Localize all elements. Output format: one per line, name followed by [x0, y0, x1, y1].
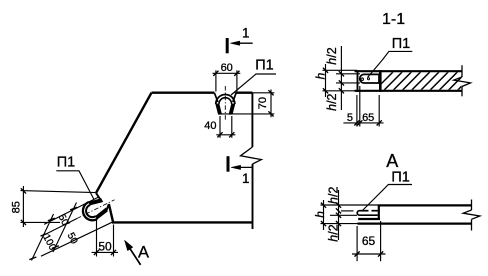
- loop P1 top: inner arch: [219, 98, 232, 104]
- view A: dimension 65 extension lines: [356, 226, 358, 261]
- svg-text:h/2: h/2: [325, 47, 339, 64]
- svg-text:А: А: [386, 151, 398, 171]
- section 1-1: panel bottom face: [355, 90, 463, 92]
- dimension 70: dimension line: [270, 90, 272, 118]
- section 1-1: panel left end face: [357, 70, 359, 92]
- view A: loop P1 bar rounded end: [357, 211, 359, 216]
- dimension 85: extension line top: [21, 191, 96, 193]
- svg-text:5: 5: [347, 112, 353, 124]
- svg-text:65: 65: [362, 112, 374, 124]
- section 1-1: extension bottom face left: [323, 90, 358, 92]
- section 1-1: loop P1 bar (side view): [360, 74, 380, 83]
- dimension 70: extension line top: [235, 92, 275, 94]
- dimension 85: extension line bottom (bottom edge extended): [21, 221, 61, 223]
- dimension 60: extension lines: [215, 70, 217, 91]
- loop P1 top: right leg: [229, 104, 235, 114]
- view A: extension bar top left stub: [341, 210, 354, 212]
- svg-text:1: 1: [242, 171, 250, 186]
- loop P1 top: outer arch: [216, 95, 235, 105]
- dimension 70: extension line bottom: [219, 113, 274, 115]
- section 1-1: dimension 5-65 extension lines: [356, 95, 358, 127]
- view A: top face thin (over chamfer): [321, 204, 380, 206]
- view A: chamfer lower edge: [358, 218, 380, 220]
- panel corner edge at loop P1: [109, 204, 113, 222]
- section 1-1: bar circle 2: [367, 78, 369, 80]
- view A: bottom face thick: [358, 223, 472, 225]
- loop P1 corner: chamfer upper: [96, 193, 100, 200]
- section 1-1: bar step line: [378, 82, 380, 84]
- panel right edge upper segment: [251, 93, 253, 147]
- section 1-1: panel top face: [355, 70, 463, 72]
- section 1-1: extension bar bottom left: [336, 82, 360, 84]
- view A: leader line of P1: [362, 185, 412, 211]
- view A: extension bar bottom left: [330, 214, 357, 216]
- section 1-1: hatching: [375, 72, 476, 90]
- svg-text:h: h: [314, 72, 328, 79]
- view A: top face thick: [380, 204, 472, 206]
- leader line of loop P1 corner: [56, 171, 94, 200]
- dimension 60: dimension line: [213, 72, 241, 74]
- dimension 50 bottom: dimension line: [92, 251, 119, 253]
- svg-text:40: 40: [204, 120, 216, 132]
- section 1-1: extension top face left: [323, 69, 358, 71]
- section mark 1 top: bar: [226, 38, 229, 53]
- panel right edge lower segment: [252, 164, 254, 229]
- dimension 40: dimension line: [216, 134, 235, 136]
- svg-text:1: 1: [242, 26, 250, 41]
- svg-text:65: 65: [362, 234, 376, 248]
- view A: dimension h line: [323, 200, 325, 230]
- loop P1 top: left leg: [216, 104, 222, 114]
- loop P1 corner: upper leg: [89, 199, 103, 205]
- svg-text:1-1: 1-1: [382, 11, 405, 28]
- section mark 1 bottom: arrow: [234, 166, 252, 168]
- loop P1 corner: outer arch: [83, 202, 97, 220]
- extension line L3 (through bottom corner): [41, 222, 113, 256]
- dimension 85: dimension line: [22, 186, 24, 227]
- dimension 50 bottom: extension lines: [96, 221, 98, 257]
- view A: dimension line 65: [352, 253, 386, 255]
- loop P1 top: centerline: [224, 86, 226, 121]
- loop P1 top: recess chamfer left: [214, 93, 218, 102]
- leader line of loop P1 top: [231, 74, 276, 95]
- view A: bottom face extension left: [321, 223, 358, 225]
- dimension 40: extension lines: [219, 116, 221, 138]
- section 1-1: recess right edge: [379, 70, 382, 92]
- view A: break symbol right end: [471, 200, 473, 211]
- svg-text:h/2: h/2: [326, 224, 340, 241]
- view A: loop P1 bar bottom: [360, 214, 378, 216]
- svg-text:П1: П1: [392, 36, 411, 52]
- loop P1 corner: lower leg: [96, 208, 108, 219]
- view A: recess edge thick vertical: [378, 204, 380, 219]
- section 1-1: dimension h line: [325, 64, 327, 97]
- section 1-1: leader line of P1: [368, 51, 413, 77]
- svg-text:h/2: h/2: [326, 187, 340, 204]
- section mark 1 top: arrow: [233, 42, 253, 44]
- section 1-1: bar circle 1: [361, 78, 364, 81]
- svg-text:А: А: [138, 244, 149, 262]
- view arrow A: [129, 247, 141, 265]
- loop P1 corner: centerline along axis: [77, 200, 115, 219]
- extension line L1 (upper leg line extended): [44, 197, 98, 224]
- svg-text:h: h: [313, 211, 327, 218]
- section 1-1: dimension chain line h/2: [340, 46, 342, 110]
- svg-text:П1: П1: [391, 170, 410, 186]
- svg-text:70: 70: [257, 97, 269, 109]
- section mark 1 bottom: bar: [227, 156, 230, 172]
- section 1-1: dimension line 5/65: [343, 122, 383, 124]
- section 1-1: extension bar top left: [336, 73, 360, 75]
- dimension line 100 (D1): [32, 214, 54, 261]
- panel top edge: [152, 91, 215, 93]
- svg-text:60: 60: [221, 62, 233, 74]
- panel diagonal edge: [96, 93, 152, 193]
- svg-text:h/2: h/2: [325, 93, 339, 110]
- extension line L2 (loop centerline extended): [44, 219, 77, 236]
- dimension line 50/50 (D0): [53, 203, 77, 253]
- svg-text:П1: П1: [57, 154, 76, 170]
- view A: loop P1 bar top: [360, 210, 369, 212]
- svg-text:50: 50: [98, 240, 112, 254]
- section 1-1: break symbol right end: [461, 65, 463, 77]
- panel bottom edge: [112, 221, 252, 223]
- break symbol on right edge: [241, 147, 262, 164]
- svg-text:П1: П1: [255, 57, 274, 73]
- loop P1 corner: inner arch: [86, 205, 96, 217]
- loop P1 top: recess chamfer right: [233, 93, 236, 102]
- view A: dimension chain line h/2: [338, 190, 340, 240]
- svg-text:85: 85: [10, 201, 22, 213]
- loop P1 corner: chamfer lower: [106, 204, 109, 211]
